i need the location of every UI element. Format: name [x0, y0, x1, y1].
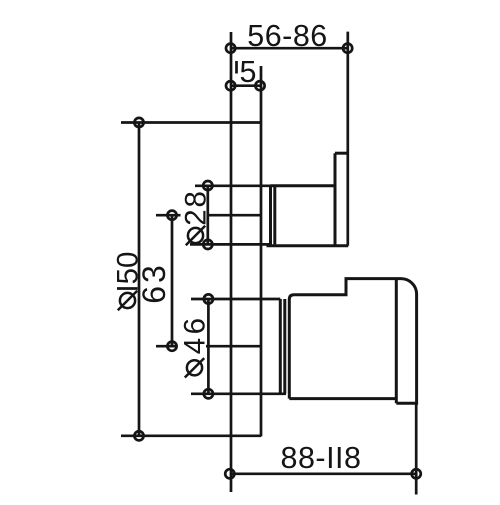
dimension 63 marker top	[167, 211, 176, 220]
ø46 bottom tick line	[191, 392, 286, 395]
ø28 top tick line	[195, 184, 271, 187]
ø28 bottom tick line	[190, 243, 272, 246]
dimension ø150 line	[138, 123, 141, 436]
label ø46	[179, 314, 212, 377]
tick left of label 5	[235, 61, 238, 74]
lower handle body bottom edge	[289, 397, 396, 400]
dimension ø150 marker bottom	[134, 431, 143, 440]
ø150 top tick line	[121, 121, 261, 124]
lower handle cap interior line	[395, 279, 398, 404]
lower handle ring front line 2	[283, 299, 286, 394]
extension line right of 56-86 down to flange	[346, 32, 349, 246]
dimension 56-86 marker left	[226, 44, 235, 53]
label ø150	[112, 252, 145, 311]
label ø28	[180, 189, 213, 245]
upper handle flange top edge	[335, 152, 348, 155]
dimension ø46 line	[207, 299, 210, 394]
63 top extension line (left segment)	[156, 214, 181, 217]
63 bottom extension line (left segment)	[156, 345, 178, 348]
dimension 5 marker right	[255, 81, 264, 90]
dimension 88-118 line	[230, 472, 416, 475]
dimension 5 marker left	[226, 81, 235, 90]
dimension ø28 marker bottom	[203, 240, 212, 249]
ø150 bottom tick line	[121, 434, 261, 437]
dimension 63 marker bottom	[167, 342, 176, 351]
svg-text:63: 63	[136, 262, 172, 304]
lower handle ring front line 1	[279, 299, 282, 394]
svg-text:46: 46	[179, 314, 212, 354]
63 bottom extension line (right segment)	[206, 345, 261, 348]
upper handle body top edge	[271, 184, 336, 187]
lower handle body and lever outline	[289, 279, 416, 404]
dimension ø46 marker top	[204, 294, 213, 303]
svg-text:56-86: 56-86	[247, 19, 328, 53]
dimension 88-118 marker left	[225, 469, 234, 478]
svg-text:28: 28	[180, 189, 213, 225]
upper handle ring front line 1	[269, 186, 272, 245]
upper handle ring front line 2	[273, 186, 276, 245]
dimension ø28 line	[206, 186, 209, 245]
upper handle flange left edge	[334, 153, 337, 246]
dimension ø46 marker bottom	[204, 389, 213, 398]
dimension 88-118 marker right	[412, 469, 421, 478]
dimension 63 line	[171, 215, 174, 346]
wall line left (extension for 56-86, 5, 88-118)	[230, 32, 233, 492]
ø46 top tick line	[191, 298, 280, 301]
dimension 56-86 line	[231, 47, 348, 50]
dimension ø28 marker top	[203, 181, 212, 190]
svg-text:5: 5	[240, 55, 257, 89]
svg-text:88-II8: 88-II8	[281, 441, 362, 475]
extension line right of 88-118 up to handle cap	[415, 403, 418, 494]
wall plate front line	[260, 66, 263, 436]
dimension ø150 marker top	[134, 118, 143, 127]
dimension 5 line	[231, 84, 261, 87]
dimension 56-86 marker right	[343, 44, 352, 53]
63 top extension line (right segment)	[208, 214, 261, 217]
upper handle body bottom edge	[267, 244, 349, 247]
